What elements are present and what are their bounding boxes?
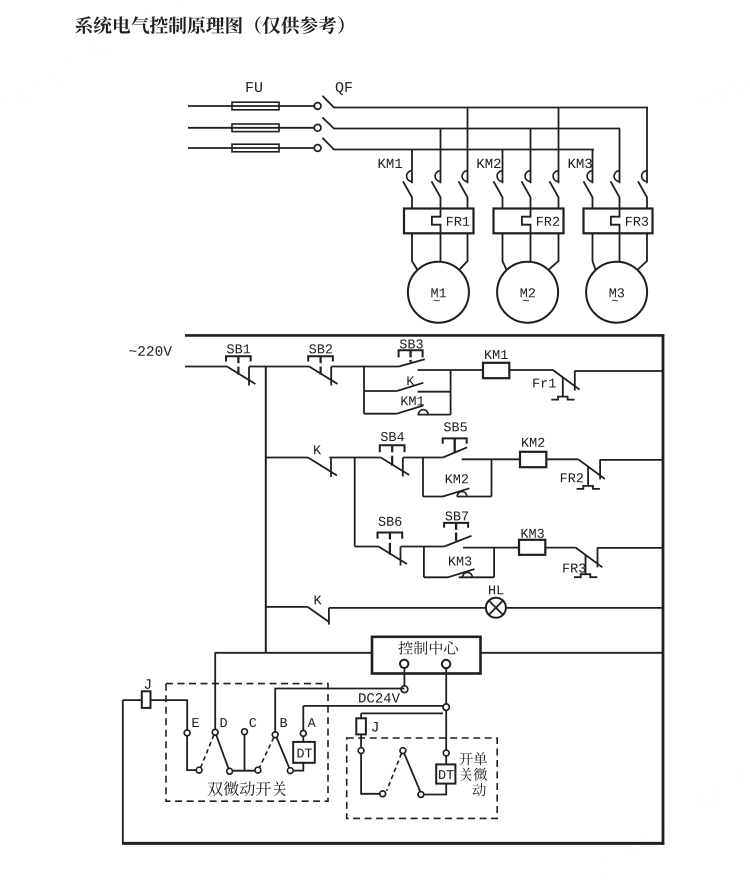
node KM2-branch right vertical bbox=[491, 459, 493, 496]
fuse FU pole 1 bbox=[232, 102, 279, 110]
pushbutton SB5 (NO) bbox=[444, 422, 451, 431]
motor lead mid pole FR2 bbox=[530, 233, 532, 262]
title 系统电气控制原理图（仅供参考） bbox=[75, 16, 92, 34]
contact KM3 aux (NO) bbox=[449, 557, 456, 566]
label M2 bbox=[521, 288, 527, 297]
terminal control-center right bbox=[442, 660, 450, 668]
wire to coil KM1 bbox=[451, 369, 483, 371]
label DC24V bbox=[359, 693, 366, 702]
right rail bbox=[662, 334, 665, 844]
wire left vertical to bottom rail bbox=[122, 700, 124, 843]
node drop row2->row3 bbox=[354, 458, 356, 547]
wire L leg (right box) bbox=[361, 754, 380, 794]
label KM3 (main contacts) bbox=[569, 159, 576, 168]
label 双微动开关 bbox=[208, 782, 223, 796]
top supply rail bbox=[185, 334, 664, 337]
wire control-center row left bbox=[215, 652, 372, 654]
terminal b4 (bottom) bbox=[287, 768, 293, 774]
motor lead left pole FR3 bbox=[593, 233, 596, 269]
switch arm M-bb2 bbox=[404, 753, 420, 791]
motor lead mid pole FR3 bbox=[619, 233, 621, 262]
wire row2 from left rail bbox=[266, 457, 308, 459]
motor lead right pole FR1 bbox=[460, 233, 468, 269]
wire phase B after QF bbox=[334, 128, 621, 130]
terminal bb1 (right box) bbox=[380, 791, 386, 797]
switch arm M-bb1 (dashed) bbox=[387, 753, 402, 791]
label KM2 (coil) bbox=[522, 438, 529, 447]
actuator DT2 box bbox=[436, 764, 455, 783]
label FU bbox=[246, 82, 253, 92]
label FR3 bbox=[626, 217, 632, 226]
wire left terminal down bbox=[403, 667, 405, 685]
wire phase C after QF bbox=[334, 149, 595, 151]
contact K (parallel with SB3, NO) bbox=[364, 390, 397, 392]
wire row1 from left bbox=[185, 366, 227, 368]
wire A-line to junction bbox=[303, 705, 443, 707]
wire D drop bbox=[214, 653, 216, 730]
thermal contact FR2 (NC) bbox=[561, 473, 567, 482]
wire SB7 right contact bbox=[463, 547, 519, 549]
wire row3 from drop bbox=[355, 546, 379, 548]
breaker QF pole 1 bbox=[314, 103, 321, 110]
label J2 bbox=[372, 722, 378, 732]
wire DT2 to bb2 bbox=[424, 784, 446, 795]
motor lead left pole FR2 bbox=[503, 233, 507, 269]
thermal relay FR1 heater element bbox=[432, 209, 441, 234]
wire FR2 to right rail bbox=[600, 459, 663, 461]
label KM2 (main contacts) bbox=[477, 159, 484, 168]
contactor KM2 main contact pole 3 bbox=[558, 108, 560, 184]
node parallel-branch right vertical bbox=[450, 370, 452, 415]
terminal M-top (right box) bbox=[400, 748, 406, 754]
node KM3-branch right vertical bbox=[493, 548, 495, 578]
node KM2-branch left vertical bbox=[422, 458, 424, 497]
wire A drop bbox=[302, 706, 304, 731]
vertical into J2 bbox=[360, 713, 362, 718]
wire right terminal down bbox=[445, 667, 447, 704]
label DT2 bbox=[439, 770, 445, 779]
thermal relay FR2 box bbox=[494, 209, 564, 234]
breaker QF pole 2 bbox=[314, 124, 321, 131]
wire K to SB4 bbox=[329, 457, 381, 459]
wire SB4 to SB5 bbox=[403, 457, 443, 459]
thermal contact Fr1 (NC) bbox=[533, 379, 539, 388]
wire control-center to right rail bbox=[482, 652, 664, 654]
label D bbox=[221, 718, 227, 727]
wire SB1 to SB2 bbox=[249, 366, 309, 368]
terminal DC24V node bbox=[401, 686, 408, 693]
pushbutton SB3 (NO) bbox=[400, 339, 407, 348]
contact K (row2, NC) bbox=[314, 445, 321, 454]
label DT1 bbox=[297, 749, 303, 758]
thermal relay FR1 box bbox=[404, 209, 474, 234]
wire phase L2 left bbox=[188, 127, 314, 129]
wire K to HL bbox=[329, 607, 486, 609]
label 控制中心 bbox=[398, 641, 412, 655]
label QF bbox=[336, 82, 344, 95]
wire SB2 to SB3 bbox=[331, 366, 399, 368]
pushbutton SB2 (NC) bbox=[309, 344, 316, 353]
coil KM3 bbox=[519, 540, 545, 555]
wire J2 down bbox=[360, 734, 362, 747]
terminal D bbox=[212, 729, 218, 735]
coil KM2 bbox=[520, 452, 546, 467]
motor lead mid pole FR1 bbox=[440, 233, 442, 262]
pushbutton SB1 (NC) bbox=[227, 344, 234, 353]
wire C leg bbox=[244, 735, 246, 770]
wire R to DT2 bbox=[445, 756, 447, 764]
contactor KM1 main contact pole 3 bbox=[467, 108, 469, 184]
motor lead right pole FR3 bbox=[638, 233, 647, 269]
label KM1 (main contacts) bbox=[379, 159, 386, 168]
terminal C bbox=[242, 729, 248, 735]
label J1 bbox=[145, 679, 151, 689]
label 关微 bbox=[461, 768, 472, 781]
wire row4 from left rail bbox=[266, 606, 308, 608]
contactor KM3 main contact pole 3 bbox=[646, 108, 648, 184]
wire A to DT1 bbox=[302, 736, 304, 742]
label 动 bbox=[473, 783, 486, 796]
dashed enclosure 开单关微动 bbox=[347, 738, 498, 818]
dashed enclosure 双微动开关 bbox=[166, 684, 328, 802]
label 开单 bbox=[459, 753, 472, 766]
contact KM2 aux (NO) bbox=[423, 496, 443, 498]
watermark top-right bbox=[688, 0, 750, 120]
label KM1 (coil) bbox=[485, 350, 492, 359]
wire SB3 right contact bbox=[418, 369, 451, 371]
wire J1 to E drop bbox=[151, 700, 188, 730]
wire DT1 to b4 bbox=[293, 763, 303, 771]
wire coil KM2 to FR2 bbox=[546, 458, 578, 460]
thermal contact FR3 (NC) bbox=[563, 564, 569, 573]
wire Fr1 to right rail bbox=[575, 370, 664, 372]
wire B drop bbox=[275, 689, 404, 733]
terminal E bbox=[184, 730, 190, 736]
terminal b3 (bottom) bbox=[255, 767, 261, 773]
label ~220V bbox=[129, 350, 136, 352]
contactor KM2 main contact pole 1 bbox=[502, 150, 504, 184]
thermal relay FR3 heater element bbox=[611, 209, 620, 234]
lamp HL bbox=[486, 598, 506, 618]
label M3 bbox=[610, 288, 616, 297]
fuse FU pole 3 bbox=[232, 144, 279, 152]
contactor KM2 main contact pole 2 bbox=[530, 129, 532, 184]
fuse FU pole 2 bbox=[232, 124, 279, 132]
switch arm D-b1 (dashed) bbox=[201, 735, 214, 768]
terminal A bbox=[300, 731, 306, 737]
contact KM1 aux (self-hold, NO) bbox=[364, 413, 397, 415]
terminal control-center left bbox=[400, 660, 408, 668]
label C bbox=[250, 718, 257, 727]
contactor KM1 main contact pole 2 bbox=[440, 129, 442, 184]
terminal B bbox=[272, 732, 278, 738]
label FR2 bbox=[537, 217, 543, 226]
wire SB6 to SB7 bbox=[401, 546, 445, 548]
wire junction down to right box bbox=[445, 710, 447, 750]
motor M3 circle bbox=[586, 262, 647, 323]
switch arm B-b4 bbox=[277, 738, 290, 769]
pushbutton SB7 (NO) bbox=[445, 511, 452, 520]
relay J1 rect bbox=[142, 691, 151, 708]
wire FR3 to right rail bbox=[598, 547, 664, 549]
relay J2 rect bbox=[356, 718, 366, 734]
wire to coil KM2 bbox=[492, 458, 521, 460]
label M1 bbox=[431, 288, 437, 297]
wire E leg bbox=[187, 736, 196, 770]
label M3 tilde bbox=[612, 300, 618, 301]
breaker QF pole 3 bbox=[314, 145, 321, 152]
label A bbox=[308, 718, 316, 727]
wire phase L1 left bbox=[188, 105, 314, 107]
pushbutton SB4 (NC) bbox=[381, 432, 388, 441]
motor lead left pole FR1 bbox=[412, 233, 417, 269]
terminal b1 (bottom) bbox=[196, 767, 202, 773]
coil KM1 bbox=[483, 363, 509, 378]
pushbutton SB6 (NC) bbox=[379, 517, 386, 526]
watermark bottom-right bbox=[588, 702, 750, 879]
bottom rail bbox=[122, 842, 664, 845]
label KM3 (coil) bbox=[521, 529, 528, 538]
contact K (row4, NC) bbox=[315, 596, 322, 605]
contactor KM1 main contact pole 1 bbox=[411, 150, 413, 184]
thermal relay FR2 heater element bbox=[522, 209, 531, 234]
node KM3-branch left vertical bbox=[423, 547, 425, 578]
wire phase L3 left bbox=[188, 147, 314, 149]
label M1 tilde bbox=[434, 300, 440, 301]
switch arm B-b3 (dashed) bbox=[260, 738, 274, 768]
wire HL to right rail bbox=[506, 607, 664, 609]
terminal bb2 (right box) bbox=[418, 792, 424, 798]
label E bbox=[192, 718, 198, 727]
terminal L-top (right box) bbox=[358, 748, 364, 754]
wire phase A after QF bbox=[334, 107, 649, 109]
switch arm D-b2 bbox=[216, 735, 228, 769]
contactor KM3 main contact pole 2 bbox=[619, 129, 621, 184]
wire coil KM3 to FR3 bbox=[545, 547, 575, 549]
terminal b2 (bottom) bbox=[227, 768, 233, 774]
label HL bbox=[489, 585, 495, 594]
watermark top-left bbox=[0, 0, 232, 130]
motor M1 circle bbox=[408, 262, 469, 323]
wire coil KM1 to Fr1 bbox=[509, 369, 553, 371]
wire branch to J2 bbox=[361, 712, 443, 714]
wire SB5 right contact bbox=[462, 458, 492, 460]
motor lead right pole FR2 bbox=[549, 233, 559, 269]
label B bbox=[281, 718, 288, 727]
label FR1 bbox=[447, 217, 453, 226]
thermal relay FR3 box bbox=[584, 209, 653, 234]
wire b2-b3 bbox=[233, 770, 256, 772]
wire left bottom to J1 bbox=[123, 699, 142, 701]
node parallel-branch left vertical bbox=[363, 367, 365, 414]
terminal R-top (right box) bbox=[443, 750, 449, 756]
label M2 tilde bbox=[523, 300, 529, 301]
contactor KM3 main contact pole 1 bbox=[592, 150, 594, 184]
motor M2 circle bbox=[497, 262, 558, 323]
actuator DT1 box bbox=[293, 742, 315, 763]
box 控制中心 (control center) bbox=[372, 637, 481, 674]
left rail (x=266) bbox=[265, 367, 267, 654]
junction node (446,707) bbox=[443, 704, 449, 710]
